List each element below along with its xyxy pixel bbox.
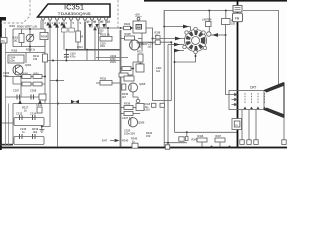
resistor R325 h — [125, 36, 135, 40]
border tag P1 — [1, 38, 8, 44]
svg-text:Q306: Q306 — [138, 121, 145, 125]
section boundary dashed left — [1, 0, 30, 23]
FB box bottom — [232, 119, 242, 130]
bowtie sym y103 — [71, 100, 79, 104]
resistor R324 h — [124, 26, 131, 29]
svg-text:LIMITER: LIMITER — [202, 18, 212, 21]
bottom comp box — [179, 137, 184, 141]
svg-text:FB: FB — [235, 17, 239, 21]
svg-text:R347: R347 — [216, 135, 222, 138]
wire x98.6 down — [98, 28, 100, 61]
FB box top — [233, 13, 243, 22]
resistor R347 — [215, 138, 225, 142]
svg-text:4k7: 4k7 — [122, 95, 127, 99]
thick wire pin9 — [84, 22, 86, 50]
resistor R312 h — [33, 82, 42, 86]
svg-text:C313: C313 — [16, 112, 23, 116]
svg-text:100n: 100n — [9, 59, 15, 63]
resistor R311b h — [22, 82, 31, 86]
transistor Q304 — [130, 40, 140, 50]
resistor R309 h — [22, 75, 31, 79]
capacitor C310 polarized — [65, 50, 67, 61]
resistor R321 h — [100, 37, 112, 42]
transistor Q306 — [128, 118, 137, 127]
CRT flare — [264, 83, 284, 118]
svg-text:330n: 330n — [3, 74, 9, 78]
resistor R311 v — [43, 54, 48, 62]
left inner wire — [5, 28, 7, 146]
arrow x95 — [93, 26, 96, 30]
wire h76 — [6, 20, 46, 97]
wire mid-left h52 — [6, 53, 46, 64]
svg-text:15k: 15k — [33, 57, 38, 61]
gun electrodes — [245, 93, 265, 103]
resistor R334 small — [122, 84, 126, 90]
wire r336 — [121, 107, 125, 109]
yoke arrows — [175, 37, 181, 41]
IC pin wires — [43, 20, 106, 31]
capacitor C316 sym — [20, 134, 23, 139]
svg-text:R346: R346 — [198, 135, 204, 138]
yoke terminal — [207, 32, 211, 36]
resistor R331 h — [100, 81, 112, 86]
wire r352 down — [225, 11, 227, 19]
pin arrows up — [46, 22, 63, 26]
terminal wire w/ arrow — [211, 34, 226, 36]
CRT socket box — [229, 91, 264, 110]
resistor R352 v — [222, 19, 231, 25]
svg-text:R305: R305 — [12, 50, 18, 53]
svg-text:2k2: 2k2 — [14, 39, 19, 42]
bottom pad left — [165, 145, 169, 149]
wire y28 center — [97, 28, 138, 37]
long wire y60 — [45, 60, 121, 62]
op IC351 body — [38, 4, 111, 17]
capacitor C312 v — [37, 107, 42, 113]
svg-text:150: 150 — [146, 134, 151, 138]
svg-text:C312: C312 — [36, 103, 43, 107]
wire corner to ground — [42, 104, 50, 127]
wire pin2 top h — [13, 29, 45, 52]
svg-text:EH: EH — [100, 22, 103, 24]
svg-text:R310: R310 — [34, 73, 40, 75]
resistor R346 — [197, 138, 207, 142]
trimmer circle — [26, 34, 34, 42]
svg-text:100n 50V: 100n 50V — [124, 132, 135, 136]
box R marker — [156, 36, 160, 39]
terminal circle — [137, 17, 140, 20]
svg-text:1u5: 1u5 — [148, 45, 153, 48]
svg-text:C319: C319 — [100, 44, 106, 46]
svg-text:R331: R331 — [100, 77, 107, 81]
wire q305 down — [133, 92, 138, 97]
svg-text:R325: R325 — [125, 32, 132, 36]
svg-text:470u: 470u — [70, 55, 76, 58]
svg-text:150: 150 — [231, 22, 236, 25]
svg-text:C308: C308 — [30, 89, 37, 93]
wire to R338 — [146, 28, 153, 39]
svg-text:EHT: EHT — [102, 139, 108, 143]
svg-text:250V: 250V — [110, 60, 116, 64]
long vertical wire x50 — [49, 25, 51, 104]
svg-text:R304: R304 — [41, 35, 48, 39]
svg-text:R308 1k: R308 1k — [26, 49, 36, 52]
pin number labels — [45, 20, 111, 26]
arrow up feed1 — [18, 100, 22, 105]
left border connector mark — [2, 17, 7, 21]
box C326 — [136, 104, 144, 111]
wire h60 — [121, 62, 141, 75]
svg-text:R324: R324 — [124, 22, 131, 26]
bottom-left corner bar — [0, 144, 13, 146]
wire arrows up col — [48, 23, 52, 28]
resistor under pin76 — [76, 31, 81, 42]
wire top loop — [164, 11, 238, 31]
wire x95 down — [94, 26, 96, 61]
svg-text:C314: C314 — [30, 112, 37, 116]
limiter wire up — [208, 11, 210, 32]
deflection yoke plug — [183, 27, 211, 53]
svg-text:R340: R340 — [122, 139, 129, 143]
yoke wires left — [137, 11, 238, 147]
svg-text:R336: R336 — [124, 102, 131, 106]
svg-text:Q301: Q301 — [25, 63, 32, 67]
long vertical wire x64 — [63, 25, 65, 48]
inline comp L301 — [155, 40, 160, 44]
capacitor C304 box — [8, 55, 24, 63]
svg-text:C318: C318 — [145, 104, 151, 106]
wire bus y103 — [13, 103, 121, 105]
yoke rim pin circles — [183, 27, 207, 53]
wire x64 to bus — [63, 48, 65, 50]
svg-text:R301: R301 — [10, 25, 16, 28]
bottom pads — [240, 140, 286, 145]
long vertical wire x57 — [57, 25, 59, 147]
resistor R327 v — [138, 54, 143, 62]
resistor R310 h — [33, 75, 42, 79]
svg-text:Q305: Q305 — [139, 82, 146, 86]
svg-text:1k5: 1k5 — [138, 45, 143, 48]
wire h97 with caps — [6, 96, 46, 98]
long vertical wire x45 — [44, 29, 46, 104]
svg-text:R306 VERT LIN: R306 VERT LIN — [17, 25, 37, 29]
right thin box wire — [243, 11, 279, 85]
svg-text:P1: P1 — [2, 39, 6, 43]
wire to Q — [121, 33, 143, 50]
wire y58 center — [96, 57, 128, 59]
svg-text:GD: GD — [107, 22, 111, 24]
socket pins left — [232, 93, 238, 105]
loop A — [14, 118, 44, 126]
box R332 — [124, 76, 134, 81]
thick heater line — [237, 0, 239, 147]
capacitor C308 sym — [31, 95, 34, 100]
ground sym — [39, 127, 44, 133]
svg-text:R343: R343 — [192, 139, 198, 142]
resistor R336 h — [124, 106, 133, 110]
svg-text:R321 1k: R321 1k — [100, 33, 110, 37]
resistor R350 v — [206, 22, 212, 27]
pin function labels — [62, 28, 68, 32]
svg-text:R327: R327 — [137, 50, 144, 54]
wire y84 — [13, 83, 45, 85]
svg-text:TDA8350Q/N5: TDA8350Q/N5 — [58, 11, 92, 16]
thick wire vertical x120 — [120, 30, 122, 147]
svg-text:3u3: 3u3 — [156, 70, 161, 73]
svg-text:C307: C307 — [13, 89, 20, 93]
transistor Q305 — [129, 83, 138, 92]
wire tick y80 — [50, 80, 64, 82]
svg-text:100n: 100n — [100, 46, 106, 48]
svg-text:CRT: CRT — [250, 86, 257, 90]
wire arrow right1 — [183, 25, 189, 29]
transistor Q301 — [13, 65, 23, 75]
left inner wire2 — [8, 104, 10, 147]
pin arrows down — [88, 24, 105, 28]
resistor R303 — [19, 34, 24, 43]
comp L303 under wire — [160, 103, 164, 107]
comp C318 under wire — [152, 103, 156, 107]
resistor R337 h — [124, 112, 133, 116]
wire x87 down — [86, 50, 88, 61]
svg-text:3k3: 3k3 — [33, 130, 38, 134]
heavy bus bar y50 — [66, 49, 120, 51]
spark gap box top — [233, 6, 242, 13]
resistor R313 — [39, 94, 46, 100]
resistor R328 h — [122, 67, 131, 71]
terminal circle — [136, 99, 140, 103]
wire y123 stub — [2, 122, 13, 124]
wires below CRT — [242, 110, 284, 141]
svg-text:R309: R309 — [23, 73, 29, 75]
IC pin circles — [42, 17, 108, 20]
capacitor C314 sym — [33, 115, 36, 120]
section boundary dashed center — [117, 0, 119, 29]
svg-text:L303: L303 — [145, 110, 151, 112]
capacitor C317 sym — [33, 134, 36, 139]
bottom border — [0, 147, 287, 149]
capacitor C307 sym — [17, 95, 20, 100]
resistor R329 h — [119, 73, 128, 77]
left border — [0, 17, 2, 150]
box C323 — [136, 64, 144, 72]
resistor R304 — [40, 33, 48, 40]
wire y142.7 — [164, 142, 187, 144]
arrow into B2 — [130, 26, 133, 29]
connector box B2 — [133, 21, 146, 33]
loop B — [14, 137, 44, 145]
top border — [144, 0, 287, 2]
svg-text:R320: R320 — [98, 31, 104, 33]
ground R327 — [139, 62, 143, 66]
wire yoke right — [226, 35, 232, 95]
junction dots — [29, 28, 31, 30]
left box outline — [12, 104, 14, 145]
arrow up feed2 — [38, 100, 42, 105]
capacitor C313 sym — [20, 115, 23, 120]
